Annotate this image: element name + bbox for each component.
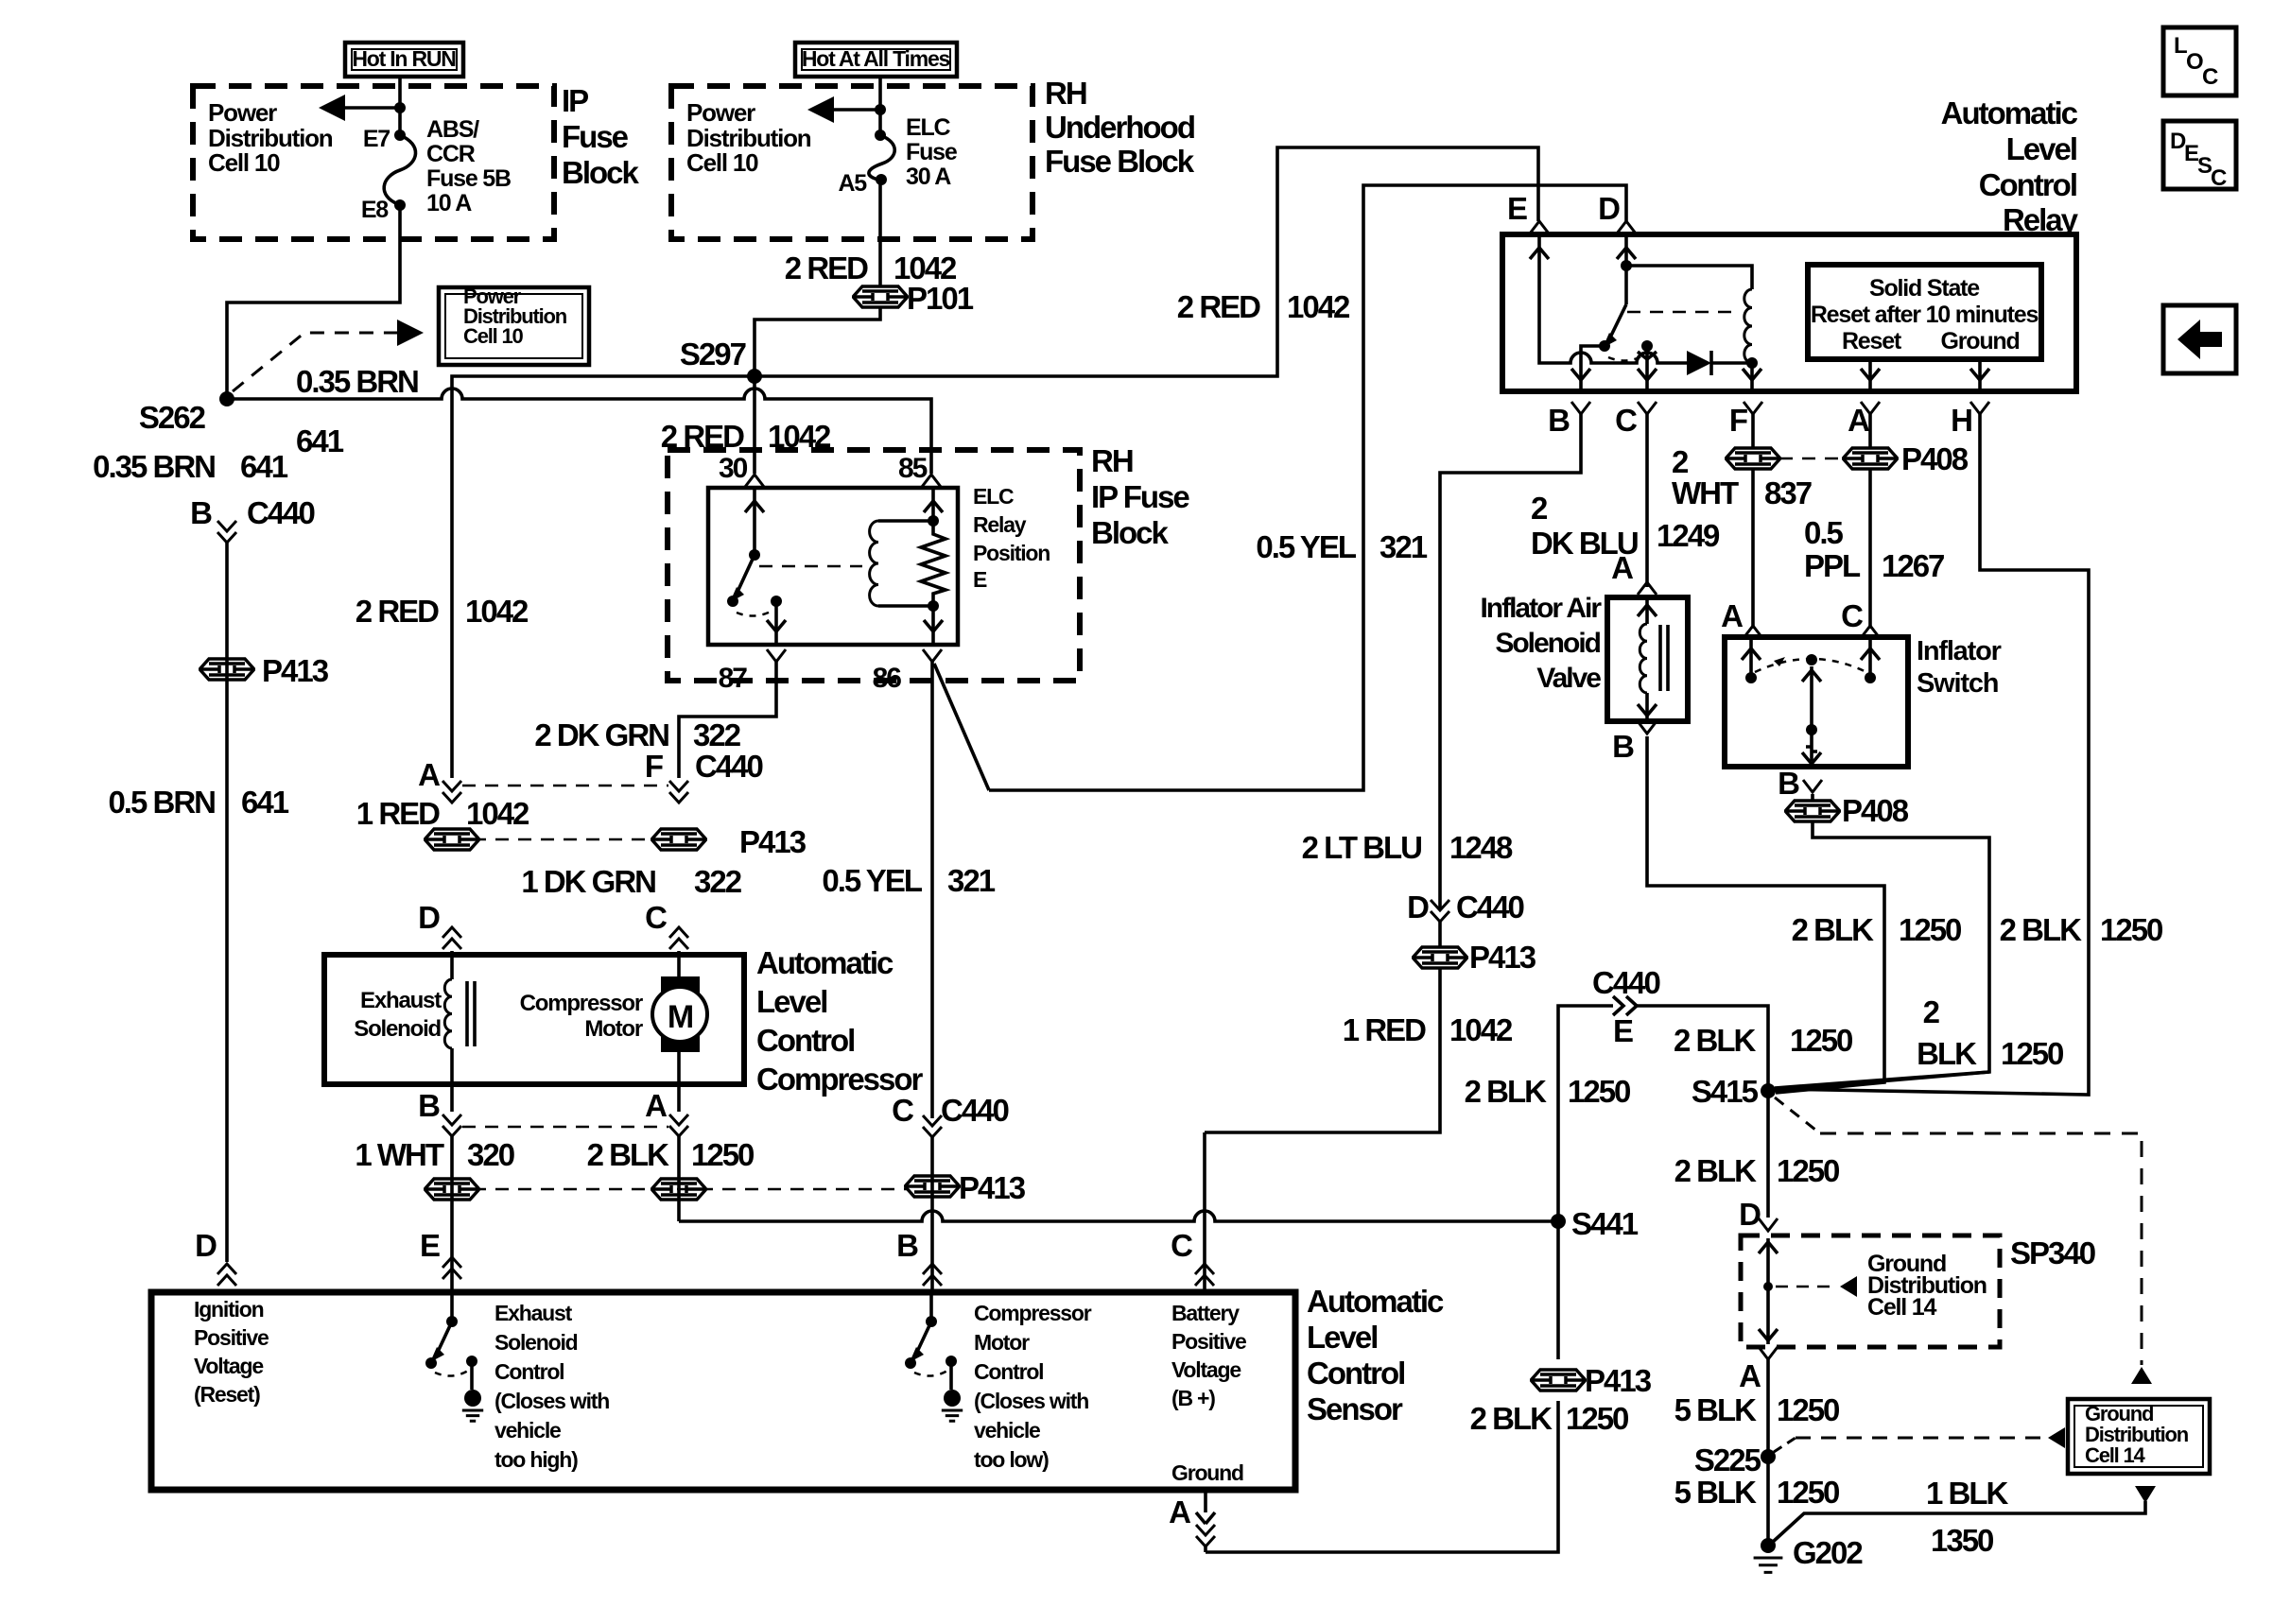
svg-text:F: F [645,749,663,784]
svg-text:641: 641 [240,449,288,484]
svg-text:A: A [645,1088,667,1123]
svg-text:E8: E8 [361,197,389,223]
svg-text:1 BLK: 1 BLK [1926,1476,2009,1511]
svg-text:Fuse 5B: Fuse 5B [426,165,511,192]
svg-text:(Reset): (Reset) [194,1382,260,1407]
svg-text:B: B [1778,766,1799,801]
svg-text:Exhaust: Exhaust [360,988,442,1013]
svg-text:P413: P413 [1469,940,1536,975]
svg-text:RH: RH [1091,443,1133,478]
svg-text:Positive: Positive [1171,1329,1246,1354]
svg-text:Control: Control [495,1359,564,1384]
svg-text:S415: S415 [1692,1074,1759,1109]
svg-text:Exhaust: Exhaust [495,1301,573,1325]
svg-text:C: C [645,900,667,935]
svg-text:B: B [1548,403,1570,438]
svg-text:A: A [418,757,440,792]
svg-text:O: O [2186,49,2203,75]
svg-text:5 BLK: 5 BLK [1674,1475,1758,1510]
svg-text:C440: C440 [941,1093,1009,1128]
svg-text:Ground: Ground [1171,1460,1243,1485]
svg-text:2 BLK: 2 BLK [1465,1074,1548,1109]
svg-text:ABS/: ABS/ [426,116,479,143]
svg-text:Level: Level [2006,131,2076,166]
svg-text:1042: 1042 [1449,1012,1513,1047]
svg-text:A: A [1848,403,1869,438]
svg-text:641: 641 [296,423,344,458]
svg-text:Underhood: Underhood [1045,110,1194,145]
svg-text:2 BLK: 2 BLK [1792,912,1875,947]
svg-text:1 RED: 1 RED [1343,1012,1426,1047]
svg-text:321: 321 [947,863,996,898]
svg-text:E: E [1507,191,1527,226]
svg-text:E: E [420,1228,440,1263]
svg-text:Positive: Positive [194,1325,269,1350]
svg-text:D: D [1598,191,1620,226]
svg-text:PPL: PPL [1804,548,1861,583]
svg-text:1249: 1249 [1657,518,1720,553]
svg-text:1250: 1250 [1568,1074,1630,1109]
svg-text:C440: C440 [1456,890,1524,924]
svg-text:1042: 1042 [466,796,529,831]
svg-text:Control: Control [1307,1356,1404,1391]
svg-text:A: A [1739,1358,1761,1393]
svg-text:2 LT BLU: 2 LT BLU [1302,830,1422,865]
svg-text:Fuse: Fuse [906,139,958,165]
svg-text:Compressor: Compressor [520,991,643,1016]
svg-text:Switch: Switch [1917,668,1998,699]
svg-text:C: C [1171,1228,1192,1263]
svg-text:2 BLK: 2 BLK [2000,912,2083,947]
svg-text:Valve: Valve [1536,663,1601,694]
svg-text:Level: Level [756,984,826,1019]
svg-text:Cell 10: Cell 10 [463,324,523,348]
svg-text:2 BLK: 2 BLK [1674,1023,1757,1058]
svg-text:Solid State: Solid State [1869,275,1980,302]
svg-text:P413: P413 [1585,1363,1652,1398]
svg-text:Control: Control [756,1023,854,1058]
svg-text:Solenoid: Solenoid [1495,628,1600,659]
svg-text:Power: Power [686,98,755,127]
svg-text:Compressor: Compressor [974,1301,1092,1325]
svg-text:Compressor: Compressor [756,1062,924,1097]
svg-text:1042: 1042 [894,251,957,285]
svg-text:CCR: CCR [426,141,476,167]
svg-text:C440: C440 [1592,965,1660,1000]
svg-text:Automatic: Automatic [1307,1284,1444,1319]
svg-text:P413: P413 [739,824,807,859]
svg-text:2: 2 [1531,491,1548,526]
svg-text:Inflator: Inflator [1917,636,2002,666]
svg-text:Fuse Block: Fuse Block [1045,144,1195,179]
svg-text:C: C [892,1093,913,1128]
svg-text:Fuse: Fuse [562,119,629,154]
svg-text:0.35 BRN: 0.35 BRN [93,449,215,484]
svg-text:(B +): (B +) [1171,1386,1215,1410]
svg-text:D: D [1739,1197,1761,1232]
svg-text:1350: 1350 [1931,1523,1993,1558]
svg-text:2 BLK: 2 BLK [1470,1401,1553,1436]
svg-text:(Closes with: (Closes with [974,1389,1088,1413]
svg-text:IP Fuse: IP Fuse [1091,479,1189,514]
svg-text:C: C [2202,64,2218,90]
svg-text:Block: Block [562,155,640,190]
svg-text:Hot At All Times: Hot At All Times [802,46,950,71]
svg-text:2 RED: 2 RED [356,594,439,629]
svg-text:C: C [1615,403,1637,438]
svg-text:(Closes with: (Closes with [495,1389,609,1413]
svg-text:Ground: Ground [1940,328,2019,354]
svg-text:Battery: Battery [1171,1301,1240,1325]
svg-text:P408: P408 [1842,793,1909,828]
svg-text:1 RED: 1 RED [356,796,440,831]
svg-text:1250: 1250 [1790,1023,1852,1058]
svg-text:Sensor: Sensor [1307,1391,1403,1426]
svg-text:C440: C440 [247,495,315,530]
svg-text:1250: 1250 [691,1137,754,1172]
svg-text:5 BLK: 5 BLK [1674,1392,1758,1427]
svg-text:Level: Level [1307,1320,1377,1355]
svg-text:Hot In RUN: Hot In RUN [352,46,456,71]
svg-text:0.35 BRN: 0.35 BRN [296,364,418,399]
svg-text:vehicle: vehicle [974,1418,1040,1443]
svg-text:837: 837 [1764,475,1812,510]
svg-text:C: C [2211,165,2227,191]
svg-text:E: E [973,567,987,592]
svg-text:Solenoid: Solenoid [495,1330,578,1355]
svg-text:322: 322 [694,864,742,899]
svg-text:30: 30 [719,453,748,484]
svg-text:G202: G202 [1793,1535,1863,1570]
svg-text:C: C [1841,598,1863,633]
svg-text:Cell 10: Cell 10 [686,148,758,177]
svg-text:0.5: 0.5 [1804,515,1844,550]
svg-text:1250: 1250 [2100,912,2162,947]
svg-text:641: 641 [241,785,289,820]
svg-text:321: 321 [1379,529,1428,564]
svg-text:M: M [668,999,693,1035]
svg-text:BLK: BLK [1917,1036,1977,1071]
svg-text:2 BLK: 2 BLK [1674,1153,1758,1188]
svg-text:320: 320 [467,1137,514,1172]
svg-text:WHT: WHT [1672,475,1739,510]
svg-text:F: F [1729,403,1747,438]
svg-text:A: A [1721,598,1743,633]
svg-text:Block: Block [1091,515,1170,550]
svg-text:10 A: 10 A [426,190,472,216]
svg-text:1 DK GRN: 1 DK GRN [521,864,655,899]
svg-text:RH: RH [1045,76,1086,111]
svg-text:1042: 1042 [1287,289,1350,324]
svg-text:B: B [896,1228,918,1263]
svg-text:P408: P408 [1901,441,1969,476]
svg-text:B: B [190,495,212,530]
svg-text:322: 322 [693,717,741,752]
svg-text:D: D [418,900,440,935]
svg-text:H: H [1951,403,1971,438]
svg-text:A: A [1169,1494,1190,1529]
svg-text:vehicle: vehicle [495,1418,561,1443]
svg-text:30 A: 30 A [906,164,951,190]
svg-text:0.5 YEL: 0.5 YEL [1256,529,1356,564]
svg-text:2 RED: 2 RED [785,251,868,285]
svg-text:D: D [195,1228,217,1263]
svg-text:86: 86 [873,663,902,694]
svg-text:1250: 1250 [1566,1401,1628,1436]
svg-text:2 RED: 2 RED [1177,289,1260,324]
svg-text:Solenoid: Solenoid [354,1016,441,1042]
svg-text:S441: S441 [1571,1206,1639,1241]
svg-text:Motor: Motor [584,1016,643,1042]
svg-text:SP340: SP340 [2010,1235,2095,1270]
svg-text:Relay: Relay [973,512,1027,537]
svg-text:2 BLK: 2 BLK [587,1137,670,1172]
svg-text:Position: Position [973,541,1050,565]
svg-text:E7: E7 [363,126,390,152]
svg-text:1267: 1267 [1882,548,1944,583]
svg-text:D: D [1407,890,1429,924]
svg-text:P413: P413 [959,1170,1026,1205]
svg-text:Motor: Motor [974,1330,1030,1355]
svg-text:0.5 YEL: 0.5 YEL [822,863,922,898]
svg-text:Inflator Air: Inflator Air [1480,593,1602,624]
svg-text:P413: P413 [262,653,329,688]
svg-text:Voltage: Voltage [1171,1357,1241,1382]
svg-text:87: 87 [719,663,748,694]
svg-text:1250: 1250 [1777,1153,1839,1188]
svg-text:Automatic: Automatic [1941,95,2078,130]
svg-text:1250: 1250 [2001,1036,2063,1071]
svg-text:E: E [1613,1013,1633,1048]
svg-text:too low): too low) [974,1447,1049,1472]
svg-text:2: 2 [1923,994,1940,1029]
svg-text:Cell 14: Cell 14 [1867,1294,1936,1321]
svg-text:S225: S225 [1694,1443,1761,1477]
svg-text:1248: 1248 [1449,830,1513,865]
svg-text:B: B [418,1088,440,1123]
svg-text:1250: 1250 [1777,1475,1839,1510]
svg-text:S262: S262 [139,400,206,435]
svg-text:0.5 BRN: 0.5 BRN [108,785,215,820]
svg-text:L: L [2174,33,2187,59]
svg-text:Control: Control [974,1359,1043,1384]
svg-text:2: 2 [1672,444,1689,479]
svg-text:Power: Power [208,98,277,127]
svg-text:too high): too high) [495,1447,578,1472]
svg-text:2 DK GRN: 2 DK GRN [534,717,668,752]
svg-text:A5: A5 [838,170,867,197]
svg-text:S297: S297 [680,337,746,371]
svg-text:1 WHT: 1 WHT [355,1137,444,1172]
svg-text:A: A [1611,550,1633,585]
svg-text:ELC: ELC [973,484,1014,509]
svg-text:Reset after 10 minutes: Reset after 10 minutes [1811,302,2039,328]
svg-text:IP: IP [562,83,588,118]
svg-text:ELC: ELC [906,114,951,141]
svg-text:B: B [1612,729,1634,764]
svg-text:P101: P101 [907,281,974,316]
svg-text:Cell 10: Cell 10 [208,148,280,177]
svg-text:1250: 1250 [1777,1392,1839,1427]
svg-text:Voltage: Voltage [194,1354,263,1378]
svg-text:Control: Control [1979,167,2076,202]
svg-text:C440: C440 [695,749,763,784]
svg-text:Automatic: Automatic [756,945,894,980]
svg-text:Cell 14: Cell 14 [2085,1443,2145,1467]
svg-text:Ignition: Ignition [194,1297,264,1322]
svg-text:1250: 1250 [1899,912,1961,947]
svg-text:1042: 1042 [465,594,529,629]
svg-text:Reset: Reset [1842,328,1902,354]
svg-text:85: 85 [898,453,928,484]
